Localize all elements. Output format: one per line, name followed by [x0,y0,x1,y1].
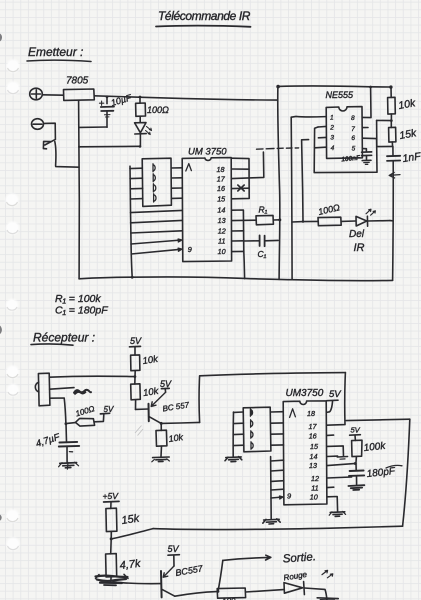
Emetteur underline [27,60,91,61]
module pin3 wire down [50,398,66,424]
svg-text:NE555: NE555 [326,90,355,100]
capacitor 100nF 555 pin5 [362,149,372,165]
svg-text:6: 6 [351,135,355,142]
svg-text:4,7k: 4,7k [119,558,141,572]
wire pin16 stub rx [327,434,334,436]
wire pin18 stub [232,168,249,170]
svg-text:15: 15 [217,195,226,204]
svg-text:Emetteur :: Emetteur : [28,45,83,59]
lower bus rx pins [270,457,273,520]
dip levers [153,164,156,202]
svg-text:16: 16 [309,432,317,441]
svg-text:12: 12 [218,226,226,235]
wire cap ground rung [79,126,107,128]
wire pin12 stub [232,230,244,232]
emitter arrow T2 [163,566,174,577]
dip levers rx first filled [250,409,253,449]
capacitor 10uF [99,97,114,128]
svg-text:10k: 10k [142,354,160,367]
rail top right to NE555 [278,85,391,88]
svg-text:UM 3750: UM 3750 [188,147,227,158]
wire junction 10k 15k [377,119,392,121]
resistor 15k [106,508,117,539]
wire divider vertical [376,120,378,146]
resistor 100k rx [352,440,362,462]
wire pin17 to osc vertical [232,152,264,179]
node divider mid [134,375,137,378]
wire 555 pin2 stub [318,125,326,128]
title underline [156,26,251,27]
resistor R1 [256,215,280,224]
svg-text:18: 18 [217,165,225,174]
svg-text:100Ω: 100Ω [147,105,169,115]
wire 555 pin1 [291,115,326,118]
svg-text:14: 14 [310,452,318,461]
svg-text:15: 15 [310,442,319,451]
svg-text:16: 16 [217,184,225,193]
bottom rail emitter [79,277,393,281]
ground output led [317,598,338,600]
svg-text:IR: IR [354,242,365,254]
svg-text:8: 8 [351,115,355,122]
pushbutton switch S0 [43,140,79,167]
svg-text:UM3750: UM3750 [286,388,324,399]
wire pin13 to osc junction [327,464,354,466]
supply 5V bar osc [350,435,361,441]
module pin2 wire and twist [50,388,91,394]
svg-text:12: 12 [311,474,319,483]
wire pin11 stub [232,240,244,242]
node bottom rail [78,146,134,279]
wire base feed T2 [113,582,160,584]
wire pin13 to R1 [232,219,256,221]
wire pin14 bracket down [232,210,245,279]
svg-text:Télécommande IR: Télécommande IR [158,9,251,23]
wire base feed T1 [136,408,149,410]
resistor 10k rx3 [156,430,167,456]
wire minus to switch [44,123,56,139]
wire pin10 to ground [327,497,337,512]
svg-text:10k: 10k [142,386,160,399]
wire rx top link [199,373,345,423]
node osc junction [354,462,357,465]
node collector [160,422,163,425]
long vertical supply A [278,86,280,279]
wire pin18 top bracket [232,158,250,199]
pencil smudge faint [135,426,143,436]
stroke F bar on 180pF [386,465,402,468]
svg-text:C₁ = 180pF: C₁ = 180pF [55,305,108,317]
ground 4.7uF [59,462,79,469]
svg-text:5V: 5V [160,379,172,389]
wire collector down [160,423,162,430]
svg-text:R₁ = 100k: R₁ = 100k [55,293,101,305]
dip rung wires left [130,168,143,199]
dashed wire data link [257,148,299,149]
collector T2 [162,589,175,596]
svg-text:18: 18 [307,409,315,418]
svg-text:4: 4 [331,145,335,152]
emitter arrow T1 [151,392,165,406]
wire 15k bottom tap [377,145,393,147]
junction node dots top rail [106,95,142,147]
led rouge [284,570,333,599]
wire pin10 stub [232,250,244,252]
wire ir branch down right [390,220,393,222]
wire plus to 7805 [43,94,64,96]
node sortie tap [217,590,220,593]
wire pin12 to cap top [327,477,352,478]
ground T1 leg [152,457,170,462]
pin labels emitter ic right [217,165,227,256]
dip switch block S1 [142,158,171,206]
resistor 10k rx1 [131,355,140,384]
capacitor 1nF [387,146,400,280]
wire 15k junction to rail [111,529,153,539]
svg-text:Sortie.: Sortie. [282,551,316,565]
svg-text:Del: Del [349,229,365,240]
regulator 7805 [64,89,95,100]
wire collector junction right [161,422,199,423]
rung wires dip to ic rx [271,412,284,446]
led infrared Del IR [356,209,390,226]
svg-text:11: 11 [311,483,318,492]
resistor 15k [389,121,396,147]
wire 555 pin4 stub [315,146,326,149]
rung wires bus to dip rx [233,412,244,446]
svg-text:5V: 5V [130,336,142,346]
svg-text:13: 13 [309,461,317,470]
wire sortie arrow [223,555,271,560]
transistor Q2 BC557 base bar [160,571,163,597]
transistor Q1 BC557 base bar [148,404,150,421]
svg-text:+5V: +5V [103,491,120,501]
resistor 10k [388,87,396,121]
ic UM3750 receiver [283,401,327,505]
wire 555 pin8 up to rail [362,87,371,117]
ir receiver module U3 [35,373,50,406]
svg-text:2: 2 [329,124,334,131]
wire pin16 with cross [232,185,249,191]
long vertical B 555 ground [290,117,293,279]
svg-text:5V: 5V [329,389,342,400]
capacitor 180pF [349,464,364,485]
ground pin10 [329,511,345,516]
svg-text:5V: 5V [351,426,361,435]
svg-text:R₁: R₁ [259,205,268,215]
dip switch rx [243,407,271,452]
bottom rail receiver [153,526,403,529]
resistor 4.7k [106,554,117,582]
svg-text:7805: 7805 [66,76,89,87]
wire 7805 to rail and sag right [94,96,277,100]
wire junction down to 4.7k [110,539,113,554]
supply 5V rx ic bar [327,400,338,412]
wire sortie tap [218,560,223,591]
svg-text:5V: 5V [168,544,180,554]
collector T1 [149,416,162,423]
arrow mark on right vertical [389,172,400,178]
supply 5V bar 15k [104,501,119,508]
wire gamma link to led branch [302,140,309,222]
outer box 555 left bottom [314,127,377,173]
svg-text:7: 7 [351,126,355,133]
supply 5V bar T1 [161,388,169,392]
svg-text:14: 14 [217,205,225,214]
svg-text:1: 1 [330,115,334,122]
pin labels rx ic right [307,409,319,501]
dip to ic rung wires [171,168,182,199]
wire 555 pin7 stub [362,127,368,129]
wire collector T2 right [175,592,217,597]
left bus rx dip [232,412,234,456]
wire ir module output line [50,376,135,377]
svg-text:17: 17 [217,174,226,183]
capacitor C1 [244,235,278,246]
svg-text:13: 13 [218,216,226,225]
capacitor 4.7uF [59,424,79,463]
wire 555 pin6 to divider [363,137,377,139]
wire pin11 stub rx [327,486,334,488]
supply 5V bar rx top [130,346,141,355]
svg-text:Récepteur :: Récepteur : [33,331,95,345]
ground 180pF [348,485,364,490]
svg-text:C₁: C₁ [258,249,267,259]
resistor 10k rx2 [131,384,141,410]
svg-text:10: 10 [310,492,318,501]
svg-text:11: 11 [218,237,225,246]
svg-text:1nF: 1nF [402,150,421,164]
svg-text:10: 10 [218,247,226,256]
wire led ground rung [79,145,140,148]
ground bus 7805 down [78,101,81,279]
ground heavy 4.7k [96,574,129,585]
resistor 100ohm emitter led [136,97,146,116]
Recepteur underline [31,344,73,345]
svg-text:3: 3 [330,135,334,142]
svg-text:5: 5 [352,145,356,152]
left bus for dip [130,166,132,277]
lower rung wires rx [271,460,284,499]
wire pin15 to gnd bar [327,446,348,459]
lower rung wires bus to ic [131,210,183,254]
pin1 mark rx ic [290,409,296,418]
minus terminal [32,119,44,130]
ground rx lower bus [263,519,280,524]
svg-text:15k: 15k [121,513,141,527]
osc box top edge [346,419,410,420]
resistor 100 output [217,588,283,598]
ic UM3750 emitter [182,158,231,262]
svg-text:10k: 10k [168,432,184,444]
wire rx link down to pin17 [327,373,346,426]
supply 5V bar rx 100ohm [100,412,109,415]
wire pin14 stub rx [327,455,338,457]
node module cap junction [65,422,68,425]
supply 5V bar T2 [168,555,179,566]
ground rx dip bus [225,457,242,462]
osc box right edge [403,419,410,526]
svg-text:5V: 5V [104,405,114,414]
scan edge marks left border [0,34,2,521]
node R1 to vertical A [276,85,281,222]
resistor 100ohm ir branch [292,217,356,226]
node 15k junction [110,537,113,540]
svg-text:17: 17 [309,422,318,431]
pin1 mark emitter ic [186,164,192,171]
wire 555 pin3 stub [318,136,326,138]
led indicator D1 [135,116,152,146]
node rail 555 [302,85,393,222]
resistor 100ohm rx [66,414,104,426]
plus terminal [30,88,43,100]
pin labels 555 [329,115,355,153]
ic NE555 [326,107,362,159]
punched holes left margin [4,58,21,552]
